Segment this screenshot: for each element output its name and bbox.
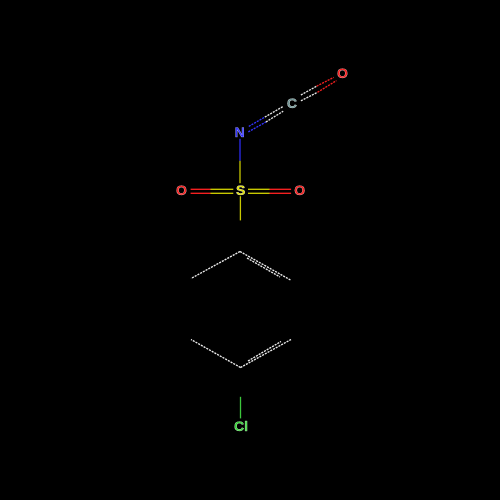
ring bond C5-C6 inner double-bond line: [248, 342, 281, 362]
bond C5-Cl (chlorine half, green solid vertical; carbon half not drawn): [240, 397, 242, 419]
bond C1=O1 (oxygen half, red): [317, 77, 337, 92]
bond S1=O3 (right double bond, sulfur half yellow): [248, 189, 270, 193]
ring bond C5-C6 (bottom vertex to lower-right, outer line of double bond): [241, 340, 292, 368]
bond S1=O2 (left double bond, oxygen half red): [191, 189, 211, 193]
ring bond C2-C7 inner double-bond line: [247, 258, 280, 277]
svg-text:O: O: [337, 65, 348, 81]
bond C1=O1 (isocyanate C to terminal O, double bond, carbon half): [301, 86, 318, 101]
svg-text:O: O: [294, 182, 305, 198]
ring bond C2-C3 (top vertex to upper-left): [191, 252, 240, 279]
ring bond C2-C7 (top vertex to upper-right, outer line of double bond): [240, 252, 291, 281]
svg-text:N: N: [235, 124, 245, 140]
svg-text:C: C: [287, 95, 297, 111]
svg-text:Cl: Cl: [234, 418, 248, 434]
ring bond C5-C4 (bottom vertex to lower-left): [191, 340, 241, 368]
bond S1=O2 (left double bond, sulfur half yellow): [211, 189, 234, 193]
bond N1-S1 (sulfur half, yellow, solid vertical): [239, 161, 241, 183]
svg-text:S: S: [236, 182, 245, 198]
bond S1=O3 (right double bond, oxygen half red): [270, 189, 292, 193]
bond N1=C1 (carbon half): [265, 107, 283, 122]
svg-text:O: O: [176, 182, 187, 198]
bond N1=C1 (nitrogen half, blue): [248, 117, 266, 132]
bond N1-S1 (nitrogen half, blue, solid vertical): [239, 139, 241, 161]
bond S1-C2 ring (sulfur half, yellow vertical; carbon half not drawn): [239, 196, 241, 220]
